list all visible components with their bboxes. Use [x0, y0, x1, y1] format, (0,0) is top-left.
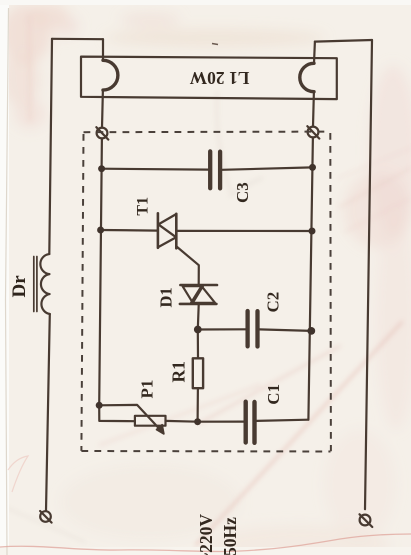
svg-text:C2: C2: [264, 292, 283, 313]
wire: T1 row right segment: [176, 230, 312, 232]
svg-text:C1: C1: [264, 384, 283, 405]
svg-text:Dr: Dr: [9, 275, 30, 298]
node: C2 right junction: [307, 327, 315, 335]
svg-text:~220V: ~220V: [196, 514, 216, 555]
wire: left filament bottom lead down to box terminal: [101, 90, 104, 128]
svg-text:T1: T1: [135, 197, 152, 216]
resistor R1 body: [193, 358, 203, 388]
dashed box bottom edge: [81, 450, 330, 453]
wire: C1 right segment up to inner-right bus corner: [257, 420, 309, 421]
wire: P1 wiper arm from left node: [99, 405, 160, 430]
inductor Dr (choke) coil humps: [40, 254, 49, 314]
wire: right outer vertical: [365, 40, 372, 509]
P1 wiper arrowhead: [157, 425, 164, 434]
wire: left outer vertical (upper part, above choke): [49, 39, 52, 254]
lamp L1 tube outline: [81, 57, 337, 100]
wire: C2 row right segment: [259, 329, 311, 331]
diac D1 (two bars + two triangles): [180, 284, 217, 287]
svg-text:C3: C3: [233, 182, 252, 203]
svg-text:50Hz: 50Hz: [220, 517, 240, 555]
wire: top-left horizontal from left outer wire to lamp left filament lead: [52, 38, 103, 41]
capacitor C1 plates: [246, 402, 255, 443]
white page margins: [0, 0, 9, 555]
terminal: bottom-left mains terminal circle with slash: [40, 511, 51, 522]
wire: left node down and right to pot body: [99, 405, 135, 421]
node: diac/C2/R1 junction: [194, 326, 202, 334]
svg-text:L1 20W: L1 20W: [189, 68, 249, 88]
terminal: dashed-box right entry circle with slash: [308, 127, 319, 138]
node: T1 right junction: [309, 228, 316, 235]
wire: right filament bottom lead down to box terminal: [312, 92, 315, 127]
svg-text:R1: R1: [169, 361, 189, 382]
wire: top-right horizontal from right filament lead to right outer wire: [315, 40, 372, 42]
svg-text:D1: D1: [157, 287, 176, 307]
wire: inner-right vertical bus: [308, 138, 313, 420]
dashed box right edge: [329, 133, 332, 451]
svg-text:P1: P1: [138, 380, 157, 399]
triac T1 (bars + zigzag triangles): [157, 213, 160, 248]
wire: triac gate lead down to diac: [176, 246, 198, 284]
node: C3 left junction: [98, 165, 105, 172]
dashed box left edge: [81, 134, 83, 451]
wire: inner-left vertical bus: [99, 139, 102, 406]
node: C3 right junction: [309, 164, 316, 171]
wire: left outer vertical (lower part, below choke): [46, 314, 50, 511]
wire: bottom row from pot to C1: [166, 420, 244, 423]
terminal: dashed-box left entry circle with slash: [97, 128, 108, 139]
wire: C2 row left segment: [198, 328, 246, 330]
wire: right filament top lead: [313, 42, 316, 64]
capacitor C3 plates: [210, 151, 220, 188]
wire: C3 row right segment: [222, 167, 313, 169]
lamp right filament (semicircle bulging left): [300, 63, 314, 91]
wire: R1 bottom lead: [197, 388, 199, 422]
wire: R1 top lead: [197, 330, 199, 359]
inductor Dr core (double bar): [34, 257, 37, 312]
dashed box around dimmer: [81, 132, 331, 452]
potentiometer P1 body: [135, 416, 166, 426]
wire: T1 row left segment: [101, 229, 158, 232]
node: P1 left junction: [96, 402, 103, 409]
wire: C3 row left segment: [102, 168, 209, 171]
small dark speck near lamp top: [212, 44, 218, 45]
node: R1 bottom junction: [194, 418, 201, 425]
wire: diac bottom lead: [197, 305, 200, 330]
dashed box top edge: [84, 131, 329, 134]
lamp left filament (semicircle bulging right): [103, 60, 118, 90]
wire: left filament top lead: [102, 39, 104, 60]
capacitor C2 plates: [248, 311, 258, 347]
terminal: bottom-right mains terminal circle with slash: [360, 515, 371, 526]
node: T1 left junction: [97, 227, 104, 234]
